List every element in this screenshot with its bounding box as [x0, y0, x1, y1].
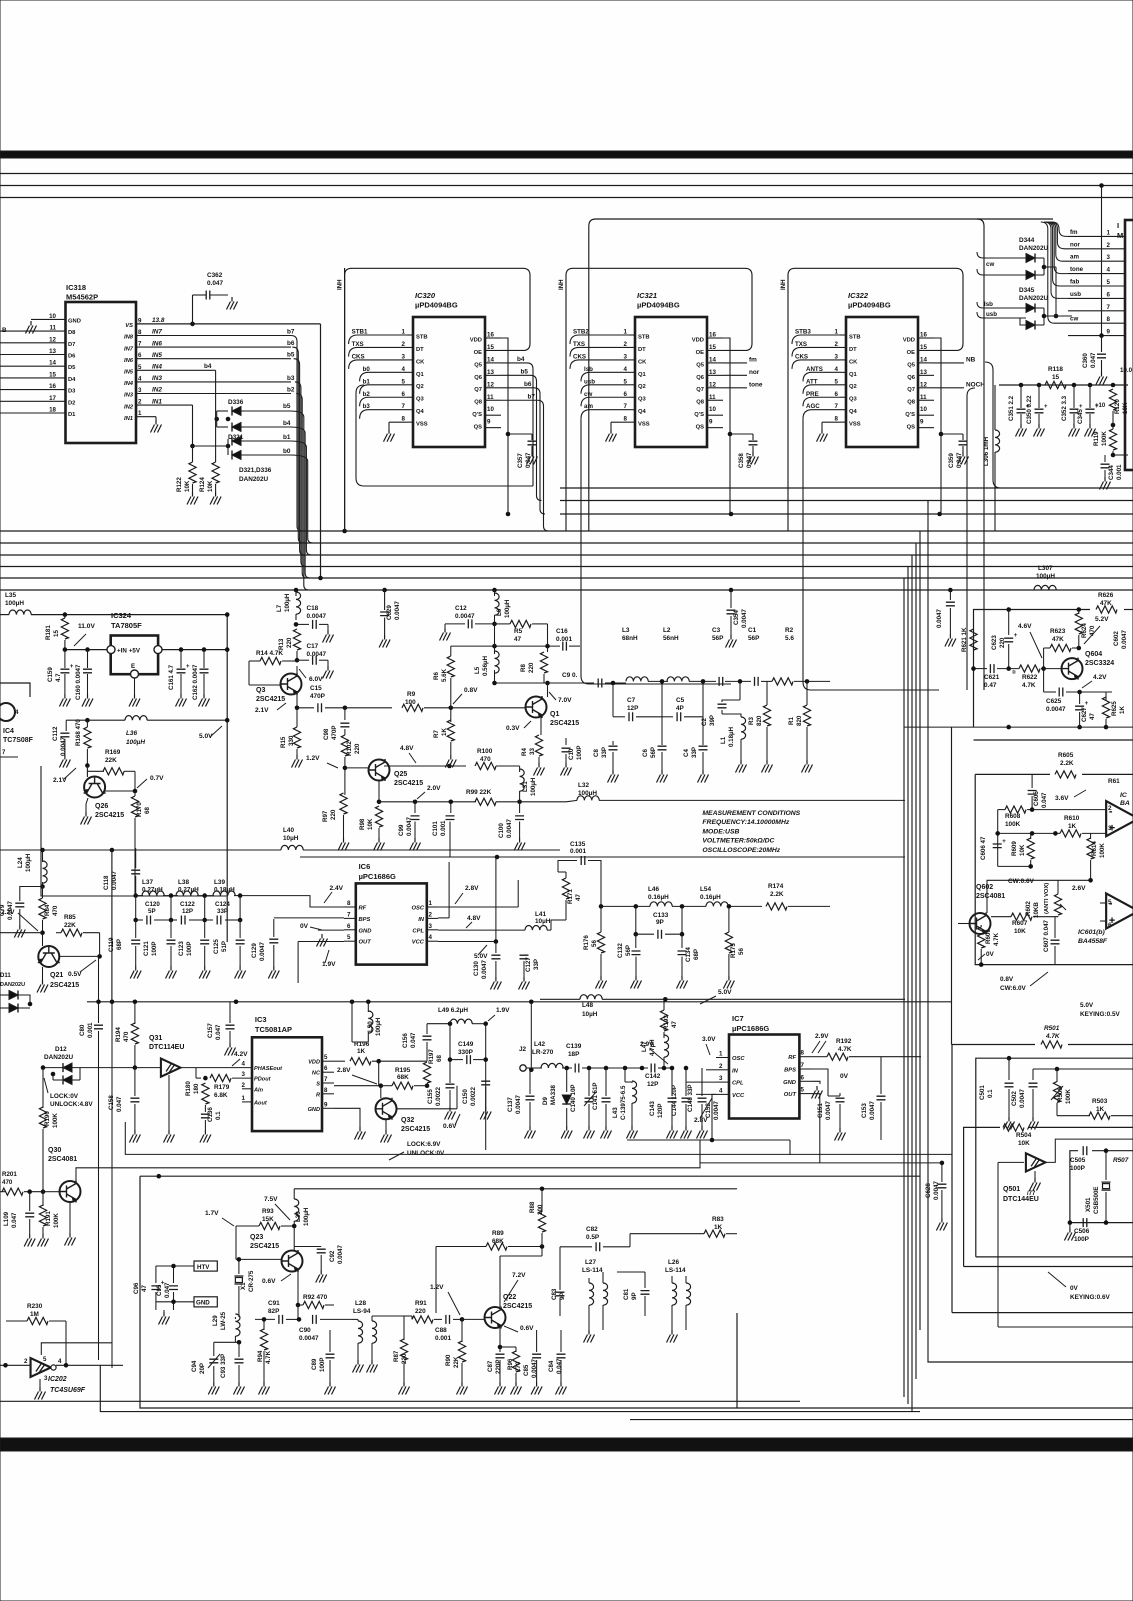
svg-text:CKS: CKS	[795, 353, 808, 360]
svg-text:2: 2	[24, 1358, 28, 1365]
left enclosure box Q26	[41, 766, 227, 896]
svg-text:100P: 100P	[151, 942, 158, 956]
svg-text:C4: C4	[683, 749, 690, 757]
svg-text:56: 56	[591, 940, 598, 947]
svg-text:5.0V: 5.0V	[474, 953, 488, 960]
svg-text:33P: 33P	[217, 908, 228, 915]
resistor R4 33	[540, 717, 542, 735]
wire IC318 VS 13.8 rail	[136, 323, 321, 325]
svg-text:L29: L29	[212, 1315, 219, 1326]
svg-text:Q4: Q4	[416, 409, 425, 415]
svg-text:NB: NB	[966, 356, 976, 363]
svg-text:fm: fm	[749, 356, 757, 363]
wires HTV GND	[156, 1265, 194, 1267]
svg-text:IC6: IC6	[359, 862, 371, 871]
wire row 1162	[700, 1162, 942, 1164]
svg-text:C352 3.3: C352 3.3	[1061, 395, 1068, 421]
capacitor C354 0.0047	[730, 590, 732, 608]
svg-text:C17: C17	[307, 643, 319, 650]
wire 2.8V node	[334, 1085, 381, 1087]
svg-text:2SC4215: 2SC4215	[401, 1126, 430, 1133]
capacitor C158 0.047	[134, 1068, 136, 1096]
svg-text:+: +	[1002, 839, 1006, 845]
svg-text:OUT: OUT	[359, 940, 372, 946]
svg-text:R3: R3	[748, 717, 755, 725]
svg-text:0.6V: 0.6V	[262, 1278, 276, 1285]
svg-text:R99 22K: R99 22K	[466, 789, 492, 796]
svg-text:4.7K: 4.7K	[1022, 682, 1036, 689]
svg-text:Q7: Q7	[907, 387, 915, 393]
wire IC320 input STB1	[349, 335, 407, 344]
svg-text:0.047: 0.047	[215, 1024, 222, 1040]
svg-text:10µH: 10µH	[535, 918, 551, 925]
svg-text:Q'S: Q'S	[694, 412, 704, 418]
svg-text:C607 0.047: C607 0.047	[1043, 919, 1050, 952]
svg-text:0.0047: 0.0047	[1121, 630, 1128, 649]
box keying third	[964, 1127, 1000, 1266]
wire VCC riser	[495, 857, 497, 942]
svg-text:QS: QS	[696, 425, 705, 431]
svg-text:R190: R190	[44, 1111, 51, 1126]
svg-text:VOLTMETER:50kΩ/DC: VOLTMETER:50kΩ/DC	[702, 838, 774, 845]
svg-text:Q7: Q7	[474, 387, 482, 393]
box keying small	[1070, 1151, 1078, 1223]
wire right bus 1	[560, 487, 1133, 489]
svg-text:R15: R15	[280, 736, 287, 748]
resistor R3 820	[766, 681, 768, 705]
svg-text:IC: IC	[1120, 792, 1127, 799]
svg-text:RF: RF	[359, 906, 367, 912]
svg-text:68nH: 68nH	[622, 635, 638, 642]
svg-text:C112: C112	[52, 726, 59, 741]
svg-text:100P: 100P	[1070, 1165, 1086, 1172]
svg-text:L1: L1	[720, 736, 727, 744]
svg-text:b6: b6	[287, 340, 295, 347]
svg-text:Q2: Q2	[849, 384, 857, 390]
capacitor C357 0.047	[508, 433, 532, 435]
svg-text:TC5081AP: TC5081AP	[255, 1025, 292, 1034]
wire IC322 input PRE	[803, 397, 840, 406]
svg-text:VSS: VSS	[638, 422, 650, 428]
resistor R119 100K	[1109, 429, 1116, 450]
svg-text:L24: L24	[17, 857, 24, 868]
svg-text:0.0047: 0.0047	[1019, 1089, 1026, 1108]
wire long vertical 6 elbow	[928, 501, 1133, 1363]
svg-text:BPS: BPS	[359, 917, 371, 923]
svg-text:B: B	[2, 327, 7, 334]
svg-text:b6: b6	[524, 381, 532, 388]
svg-text:9: 9	[1107, 329, 1111, 336]
svg-text:9: 9	[324, 1101, 328, 1108]
svg-text:C623: C623	[991, 635, 998, 650]
svg-text:C140 10P: C140 10P	[570, 1084, 577, 1112]
inductor L5 0.56uH	[494, 646, 496, 654]
svg-text:LOCK:6.9V: LOCK:6.9V	[407, 1141, 441, 1148]
svg-text:R: R	[316, 1092, 320, 1098]
svg-text:7: 7	[347, 911, 351, 918]
svg-text:Q4: Q4	[849, 409, 858, 415]
wire IC321 output tone	[723, 387, 747, 389]
svg-text:Q25: Q25	[394, 771, 407, 778]
svg-text:1M: 1M	[30, 1311, 39, 1318]
svg-text:1.2V: 1.2V	[430, 1284, 444, 1291]
svg-text:L32: L32	[578, 782, 589, 789]
svg-text:C627: C627	[1081, 707, 1088, 722]
wire R508 row	[1033, 1068, 1133, 1070]
svg-text:56P: 56P	[748, 635, 760, 642]
svg-text:LW-25: LW-25	[220, 1311, 227, 1330]
resistor R171 47	[565, 872, 567, 878]
svg-text:2.8V: 2.8V	[337, 1067, 351, 1074]
svg-text:GND: GND	[196, 1300, 210, 1307]
svg-text:17: 17	[49, 395, 56, 402]
svg-text:C100: C100	[498, 823, 505, 838]
svg-text:220: 220	[528, 662, 535, 673]
svg-text:DTC114EU: DTC114EU	[149, 1044, 184, 1051]
svg-text:100K: 100K	[1005, 821, 1021, 828]
svg-text:R6: R6	[433, 672, 440, 680]
wire Q23 base	[235, 1226, 237, 1259]
wire IC318 pin18	[0, 412, 66, 414]
svg-text:330: 330	[288, 735, 295, 746]
svg-text:R124: R124	[199, 477, 206, 492]
svg-text:Q5: Q5	[696, 362, 705, 368]
svg-text:0.047: 0.047	[11, 1212, 18, 1228]
svg-text:5: 5	[324, 1054, 328, 1061]
svg-text:NC: NC	[312, 1071, 321, 1077]
svg-text:IN1: IN1	[124, 416, 133, 422]
svg-text:L5: L5	[474, 666, 481, 674]
wire right IC pin2	[1068, 248, 1125, 250]
capacitor C119 68P	[135, 920, 137, 938]
capacitor C98 470P	[344, 708, 346, 720]
wire IC322 output NOCH	[934, 387, 964, 389]
svg-text:56P: 56P	[625, 945, 632, 956]
IC IC4 TC7S08F partial	[0, 683, 30, 697]
transistor Q32 2SC4215	[376, 1098, 397, 1120]
wire IC321 VDD	[723, 338, 730, 514]
svg-text:1K: 1K	[357, 1048, 366, 1055]
svg-text:+: +	[186, 664, 190, 670]
svg-text:13.8: 13.8	[152, 317, 165, 324]
svg-text:R622: R622	[1022, 674, 1038, 681]
svg-text:3: 3	[242, 1071, 246, 1078]
svg-text:C625: C625	[1046, 698, 1062, 705]
svg-text:4.2V: 4.2V	[1093, 674, 1107, 681]
svg-text:2SC4215: 2SC4215	[50, 982, 79, 989]
svg-text:47K: 47K	[1052, 636, 1064, 643]
svg-text:100µH: 100µH	[126, 739, 145, 746]
svg-text:0.0047: 0.0047	[1046, 706, 1066, 713]
svg-text:TXS: TXS	[352, 341, 364, 348]
svg-text:33P: 33P	[533, 959, 540, 970]
svg-text:0.047: 0.047	[1090, 352, 1097, 368]
svg-text:L27: L27	[585, 1259, 596, 1266]
svg-text:LS-114: LS-114	[582, 1267, 603, 1274]
svg-text:16: 16	[49, 383, 56, 390]
svg-text:C135: C135	[570, 841, 586, 848]
svg-text:Q3: Q3	[416, 397, 425, 403]
svg-text:Q2: Q2	[638, 384, 646, 390]
wire Q25 collector 4.8V rail	[384, 765, 449, 767]
svg-text:C628: C628	[925, 1183, 932, 1198]
svg-text:4.2V: 4.2V	[234, 1051, 248, 1058]
wire IC322 input TXS	[792, 347, 840, 356]
svg-text:UNLOCK:0V: UNLOCK:0V	[407, 1150, 445, 1157]
capacitor C629 0.0047	[384, 590, 386, 610]
svg-text:C122: C122	[180, 901, 195, 908]
svg-text:QS: QS	[474, 425, 483, 431]
svg-text:Q6: Q6	[907, 375, 916, 381]
svg-text:0V: 0V	[300, 923, 309, 930]
wire PLL top border	[87, 1001, 952, 1003]
svg-text:C357: C357	[517, 453, 524, 468]
wire bottom row 866	[998, 865, 1031, 867]
svg-text:R100: R100	[477, 748, 493, 755]
svg-text:Q21: Q21	[50, 972, 63, 979]
svg-text:HTV: HTV	[197, 1264, 210, 1271]
svg-text:M54562P: M54562P	[66, 293, 98, 302]
svg-text:220: 220	[330, 809, 337, 820]
svg-text:100P: 100P	[319, 1358, 326, 1372]
svg-text:C350 0.22: C350 0.22	[1026, 395, 1033, 424]
svg-text:C92: C92	[329, 1250, 336, 1262]
svg-text:IC601(b): IC601(b)	[1078, 929, 1106, 936]
svg-text:R194: R194	[115, 1027, 122, 1042]
svg-text:L28: L28	[355, 1300, 366, 1307]
GND box	[194, 1297, 217, 1307]
svg-text:CW:6.0V: CW:6.0V	[1000, 985, 1027, 992]
wire INH routing IC322	[788, 268, 963, 531]
svg-text:GND: GND	[68, 318, 81, 324]
wire lock vertical	[485, 1024, 487, 1150]
svg-text:6: 6	[347, 923, 351, 930]
svg-text:R92 470: R92 470	[303, 1294, 328, 1301]
svg-text:R181: R181	[45, 625, 52, 640]
svg-text:R609: R609	[1011, 841, 1018, 856]
svg-text:6: 6	[1107, 291, 1111, 298]
svg-text:0.27µH: 0.27µH	[178, 887, 199, 894]
wire long vertical 3	[911, 555, 913, 1412]
svg-text:R625: R625	[1111, 701, 1118, 716]
svg-text:BPS: BPS	[784, 1068, 796, 1074]
svg-text:R89: R89	[492, 1230, 504, 1237]
svg-text:2.6V: 2.6V	[1072, 885, 1086, 892]
svg-text:R605: R605	[1058, 752, 1074, 759]
wire IC6 VCC	[438, 941, 496, 943]
svg-text:KEYING:0.5V: KEYING:0.5V	[1080, 1011, 1121, 1018]
svg-text:2.8V: 2.8V	[694, 1117, 708, 1124]
svg-text:3: 3	[1107, 254, 1111, 261]
svg-text:2SC3324: 2SC3324	[1085, 660, 1114, 667]
wire right IC pin3	[1068, 260, 1125, 262]
svg-text:C6: C6	[642, 749, 649, 757]
svg-text:10: 10	[487, 406, 494, 413]
svg-text:R102: R102	[346, 741, 353, 756]
IC IC3 TC5081AP	[252, 1037, 322, 1131]
svg-text:µPD4094BG: µPD4094BG	[415, 301, 458, 310]
svg-text:1.2V: 1.2V	[306, 755, 320, 762]
svg-text:INH: INH	[780, 279, 787, 290]
svg-text:C345: C345	[1077, 409, 1084, 424]
svg-text:IN4: IN4	[124, 381, 134, 387]
wire IC202 pin5 feed	[41, 1343, 112, 1355]
inductor L36 100uH	[66, 719, 125, 721]
svg-text:0V: 0V	[840, 1073, 849, 1080]
svg-text:Aln: Aln	[253, 1087, 264, 1093]
svg-text:C91: C91	[268, 1300, 280, 1307]
wire IC320 input b3	[360, 410, 407, 419]
svg-text:100K: 100K	[1065, 1089, 1072, 1104]
svg-text:0.001: 0.001	[435, 1335, 451, 1342]
svg-text:0.0047: 0.0047	[60, 737, 67, 756]
svg-text:C93 33P: C93 33P	[220, 1354, 227, 1378]
svg-text:12: 12	[49, 336, 56, 343]
svg-text:b2: b2	[287, 387, 295, 394]
svg-text:Q8: Q8	[696, 400, 705, 406]
svg-text:VSS: VSS	[849, 422, 861, 428]
svg-text:0.0022: 0.0022	[435, 1087, 442, 1106]
svg-text:4.6V: 4.6V	[1018, 623, 1032, 630]
svg-text:usb: usb	[1070, 291, 1081, 298]
svg-text:2SC4081: 2SC4081	[976, 893, 1005, 900]
svg-text:M: M	[1117, 231, 1123, 240]
wire IC322 output NB	[934, 362, 964, 364]
svg-text:3.0V: 3.0V	[702, 1036, 716, 1043]
svg-text:R504: R504	[1016, 1132, 1032, 1139]
wire IC318 pin17	[0, 400, 66, 402]
svg-text:120P: 120P	[657, 1104, 664, 1118]
capacitor C359 0.047	[941, 433, 963, 435]
svg-text:33: 33	[529, 748, 536, 755]
svg-text:b5: b5	[283, 403, 291, 410]
svg-text:C123: C123	[178, 941, 185, 956]
svg-text:R122: R122	[176, 477, 183, 492]
svg-text:100P: 100P	[1074, 1236, 1090, 1243]
svg-text:39P: 39P	[709, 715, 716, 726]
svg-text:QS: QS	[907, 425, 916, 431]
svg-text:56P: 56P	[712, 635, 724, 642]
svg-text:Q3: Q3	[638, 397, 647, 403]
svg-text:R1: R1	[788, 717, 795, 725]
bus line top 1	[0, 173, 1133, 175]
svg-text:IN4: IN4	[152, 364, 162, 371]
svg-text:D336: D336	[228, 399, 244, 406]
svg-text:R93: R93	[262, 1208, 274, 1215]
svg-text:CK: CK	[416, 359, 425, 365]
capacitor C101 0.001	[450, 766, 452, 813]
capacitor C350 0.22	[1038, 385, 1040, 408]
ground IC321 VSS	[611, 421, 629, 423]
svg-text:C141 51P: C141 51P	[592, 1082, 599, 1110]
svg-text:R91: R91	[415, 1300, 427, 1307]
wire right IC pin8	[1068, 322, 1125, 324]
svg-text:BA4558F: BA4558F	[1078, 938, 1108, 945]
wire Q25 emitter	[378, 781, 380, 802]
wire L49 row	[427, 1023, 450, 1025]
svg-text:0.0047: 0.0047	[741, 609, 748, 628]
svg-text:L2: L2	[663, 627, 671, 634]
svg-text:tone: tone	[1070, 266, 1084, 273]
svg-text:C606 47: C606 47	[980, 836, 987, 860]
capacitor C127 33P	[517, 879, 519, 881]
wire RF net down	[920, 1056, 922, 1058]
svg-text:b3: b3	[287, 375, 295, 382]
svg-text:8: 8	[801, 1050, 805, 1057]
svg-text:R610: R610	[1064, 815, 1080, 822]
svg-text:C142: C142	[645, 1073, 661, 1080]
svg-text:C118: C118	[103, 875, 110, 890]
svg-text:C344: C344	[1108, 465, 1115, 480]
svg-text:VDD: VDD	[692, 337, 704, 343]
svg-text:0.5P: 0.5P	[586, 1234, 600, 1241]
svg-text:C153: C153	[861, 1103, 868, 1118]
wires IC318 outputs b7 b6 b5	[136, 335, 291, 337]
svg-text:R623: R623	[1050, 628, 1066, 635]
capacitor C125 51P	[239, 920, 241, 938]
svg-text:68K: 68K	[397, 1074, 409, 1081]
svg-text:56nH: 56nH	[663, 635, 679, 642]
svg-text:0.8V: 0.8V	[1000, 976, 1014, 983]
wire IC321 input cw	[581, 397, 629, 406]
resistor R102 220	[344, 729, 346, 735]
svg-text:R88: R88	[529, 1201, 536, 1213]
svg-text:C362: C362	[207, 272, 223, 279]
svg-text:CK: CK	[849, 359, 858, 365]
wire IC320 input b1	[360, 385, 407, 394]
svg-text:DAN202U: DAN202U	[44, 1054, 74, 1061]
svg-text:5.6: 5.6	[785, 635, 794, 642]
svg-text:CKS: CKS	[573, 353, 586, 360]
wire IN1 pin2 down	[136, 404, 193, 406]
wire 5V vertical right	[226, 615, 228, 942]
svg-text:10K: 10K	[367, 818, 374, 830]
svg-text:470: 470	[480, 756, 491, 763]
svg-text:FREQUENCY:14.10000MHz: FREQUENCY:14.10000MHz	[702, 819, 789, 826]
svg-text:OE: OE	[696, 350, 705, 356]
svg-text:4.8V: 4.8V	[400, 745, 414, 752]
svg-text:Q6: Q6	[474, 375, 483, 381]
svg-text:L35: L35	[5, 592, 16, 599]
svg-text:b4: b4	[204, 363, 212, 370]
svg-text:C90: C90	[299, 1327, 311, 1334]
svg-text:R626: R626	[1098, 592, 1114, 599]
svg-text:220: 220	[415, 1308, 426, 1315]
svg-text:68P: 68P	[116, 939, 123, 950]
inductor L31 100uH	[519, 766, 521, 772]
svg-text:11.0V: 11.0V	[78, 623, 95, 630]
svg-text:0.47: 0.47	[984, 682, 997, 689]
svg-text:C156: C156	[402, 1033, 409, 1048]
svg-text:OE: OE	[907, 350, 916, 356]
resistor R120 10K	[1109, 389, 1116, 410]
svg-text:b3: b3	[363, 403, 371, 410]
resistor R8 220	[547, 646, 549, 652]
svg-text:5.0V: 5.0V	[1080, 1002, 1094, 1009]
svg-text:R97: R97	[322, 810, 329, 822]
svg-text:b5: b5	[521, 368, 529, 375]
IC IC324 TA7805F	[111, 636, 158, 675]
svg-text:TC7S08F: TC7S08F	[3, 737, 34, 744]
svg-text:C358: C358	[738, 453, 745, 468]
svg-text:4: 4	[58, 1358, 62, 1365]
svg-text:DAN202U: DAN202U	[1019, 245, 1049, 252]
svg-text:68: 68	[144, 807, 151, 814]
svg-text:L7: L7	[276, 604, 283, 612]
resistor R13 220	[295, 614, 297, 620]
svg-text:STB3: STB3	[795, 329, 811, 336]
svg-text:IN7: IN7	[152, 329, 162, 336]
